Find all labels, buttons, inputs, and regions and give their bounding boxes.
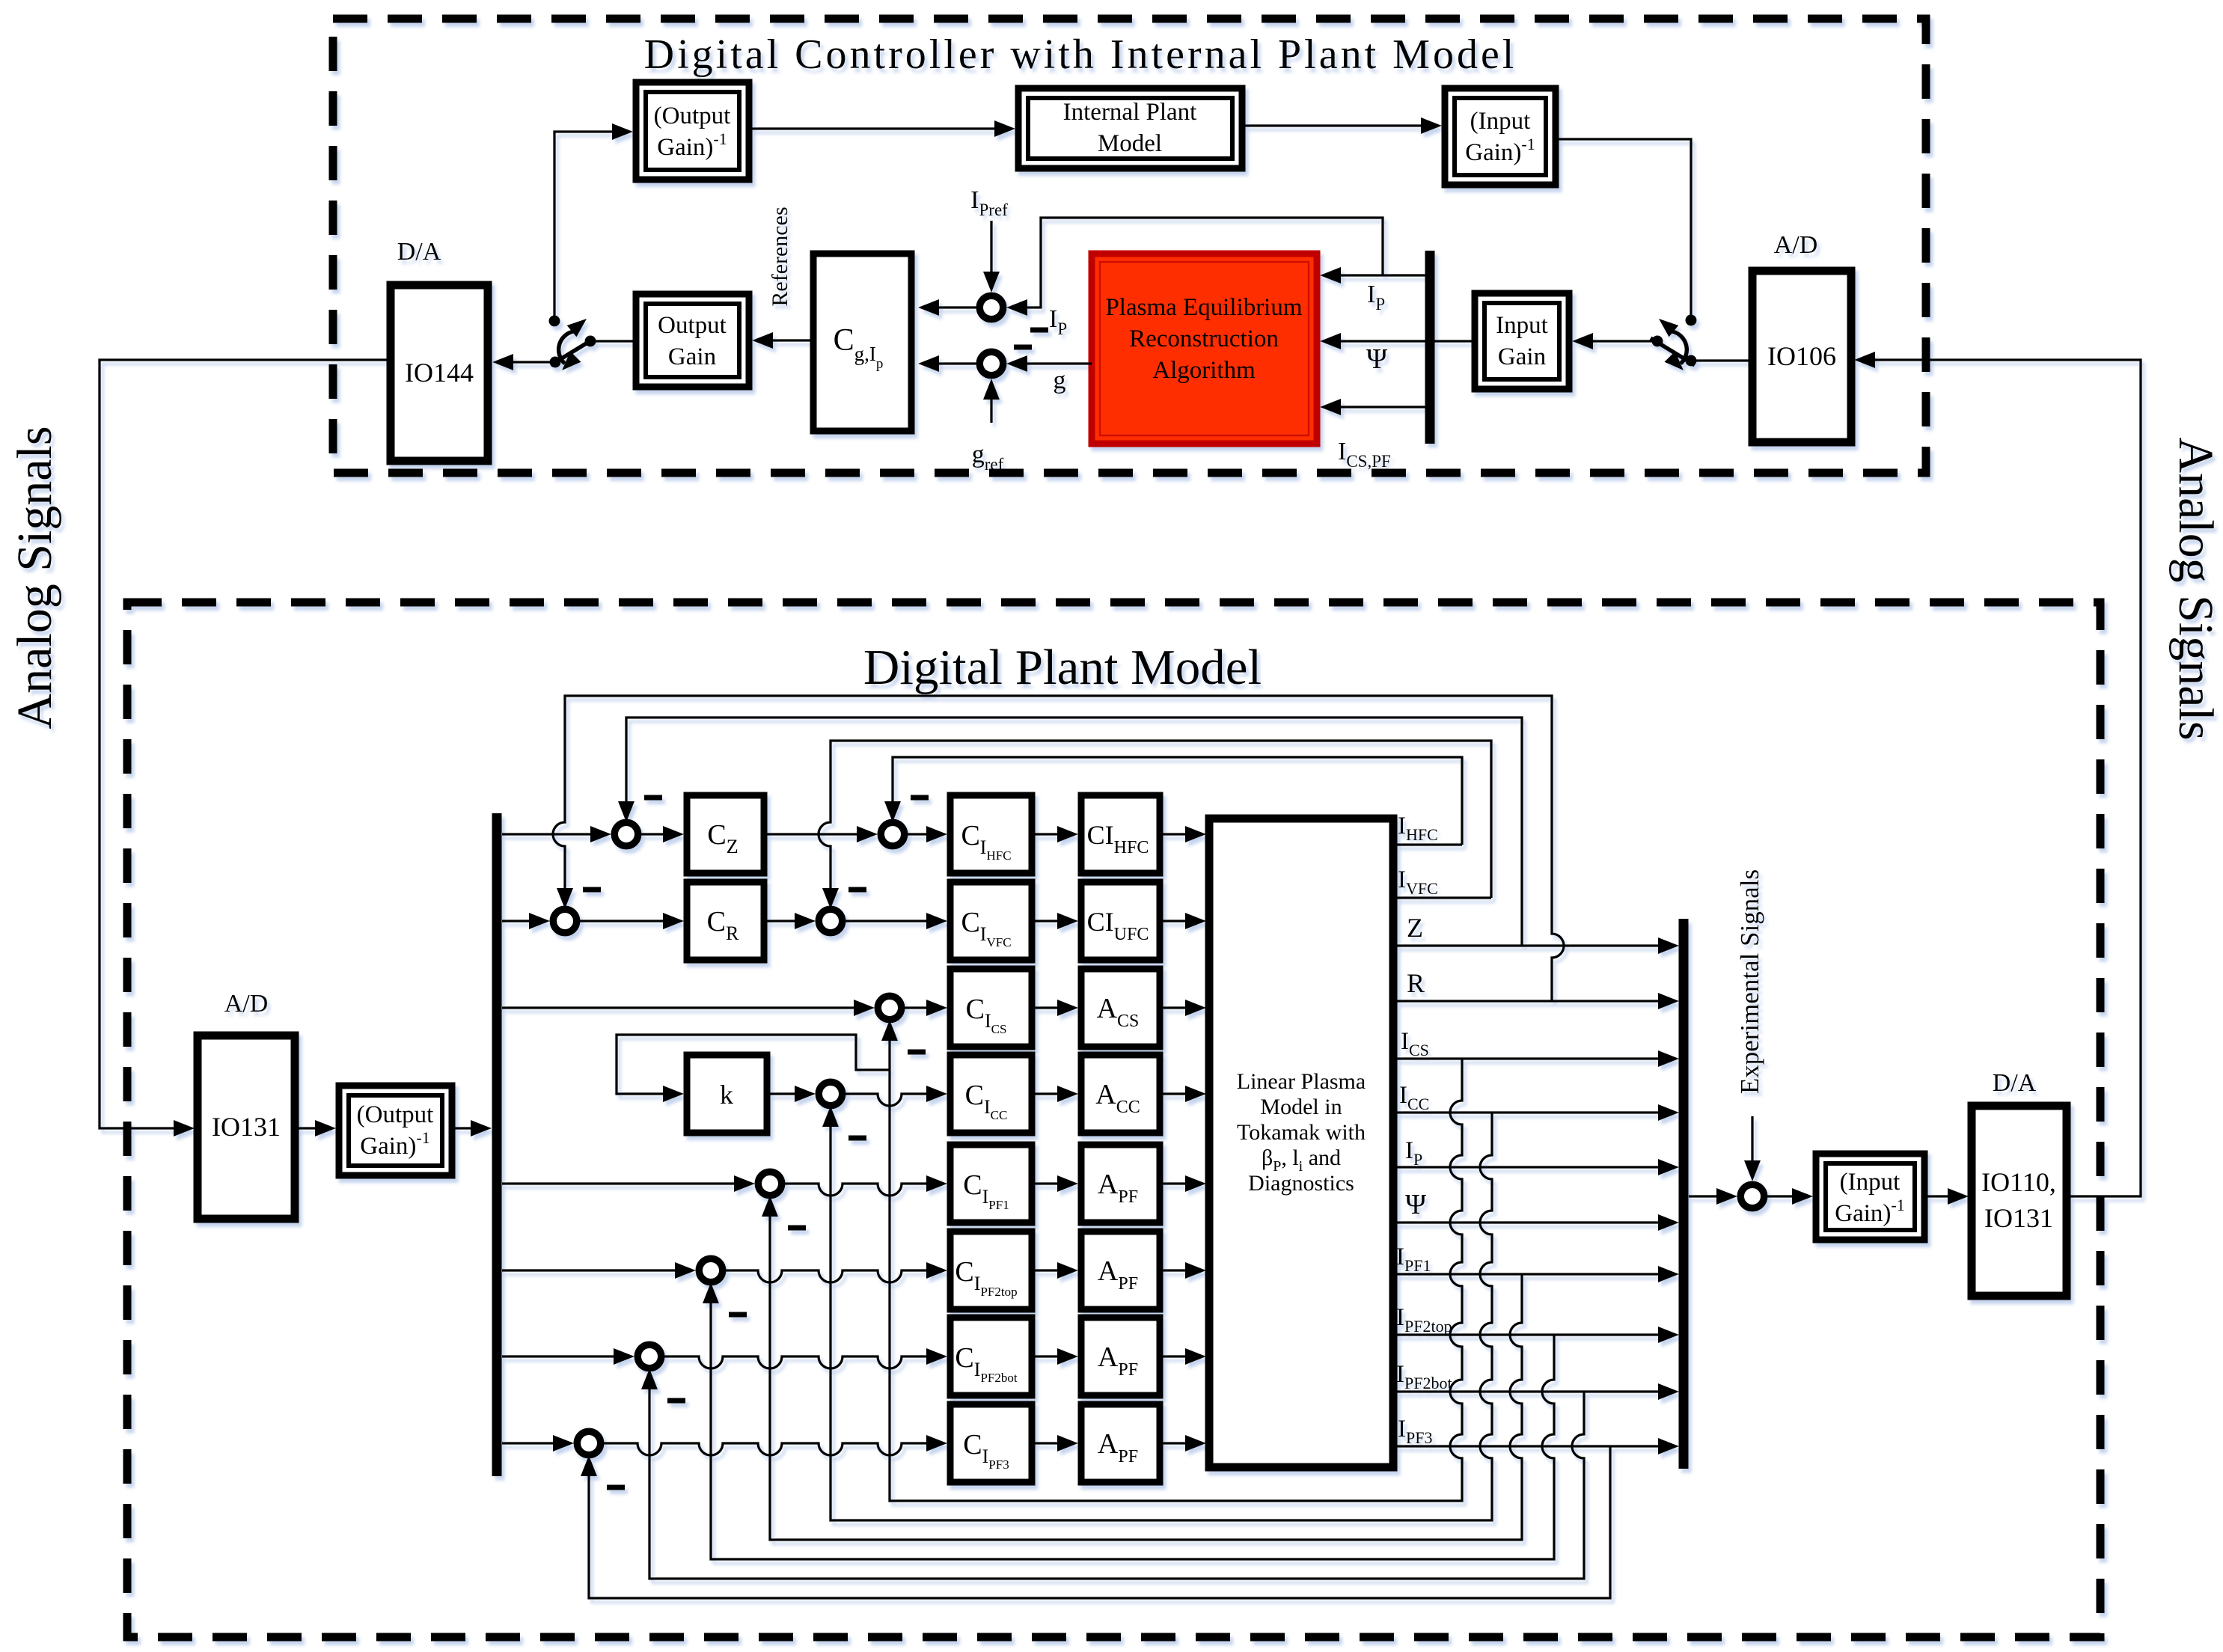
block Plasma Equilibrium Reconstruction Algorithm (red) <box>1092 254 1317 444</box>
svg-text:D/A: D/A <box>397 238 441 266</box>
svg-text:Z: Z <box>1407 913 1423 943</box>
wire A_PF2bot to plasma model <box>1160 1348 1206 1365</box>
wire Z feedback (top) <box>618 718 1522 946</box>
label C_IPF2bot <box>955 1342 1017 1385</box>
sum junction ICS <box>878 996 902 1020</box>
wire C_ICC to A_CC <box>1032 1086 1078 1102</box>
block C_IHFC <box>950 795 1032 873</box>
wire bus to sum CS <box>502 1000 875 1016</box>
label (Output Gain)^-1 (controller) <box>654 103 731 129</box>
label Output Gain <box>658 312 727 339</box>
label IVFC output <box>1398 866 1438 898</box>
minus at sum IPF2top <box>729 1312 747 1318</box>
wire sum to (Input Gain)^-1 (plant) <box>1767 1188 1813 1205</box>
label IP near bus <box>1367 281 1385 313</box>
wire C_ICS to A_CS <box>1032 1000 1078 1016</box>
label C_ICC <box>965 1080 1008 1122</box>
wire ICS feedback (bottom) <box>881 1020 1462 1501</box>
wire (Output Gain)^-1 to left bus <box>452 1120 492 1136</box>
svg-text:Ψ: Ψ <box>1405 1189 1426 1220</box>
minus at sum R <box>583 887 601 893</box>
label C_R <box>707 906 739 944</box>
sum junction Z <box>614 822 638 846</box>
minus at sum ICC <box>848 1136 866 1141</box>
wire plasma IPF2top output <box>1393 1327 1679 1343</box>
svg-text:Ψ: Ψ <box>1366 343 1387 375</box>
svg-text:(Input: (Input <box>1840 1169 1901 1196</box>
label IPref <box>970 186 1008 219</box>
dashed box: Digital Controller with Internal Plant Model <box>333 19 1926 473</box>
block (Output Gain)^-1 (plant) <box>339 1086 452 1175</box>
wire Output Gain to switch <box>590 340 636 342</box>
wire sum junction A to C_g,Ip <box>918 299 976 316</box>
label Analog Signals (right) <box>2168 437 2223 740</box>
label CI_UFC <box>1087 907 1149 944</box>
svg-text:IO106: IO106 <box>1767 341 1836 371</box>
label IP near junction <box>1049 305 1067 338</box>
label A_CC <box>1095 1079 1140 1117</box>
label k <box>720 1080 733 1110</box>
minus at sum IPF2bot <box>667 1398 685 1404</box>
label Psi output <box>1405 1189 1426 1220</box>
label Internal Plant Model line2 <box>1098 130 1162 157</box>
wire sum CC to C_ICC <box>846 1086 947 1106</box>
block C_IPF2bot <box>950 1318 1032 1395</box>
sum junction IPF2top <box>699 1258 723 1282</box>
label (Output Gain)^-1 line2 (controller) <box>657 129 727 161</box>
svg-text:Gain: Gain <box>668 343 716 370</box>
label IO106 <box>1767 341 1836 371</box>
label gref <box>972 441 1004 474</box>
label C_IVFC <box>961 907 1011 949</box>
wire IPref input <box>983 221 1000 293</box>
wire bus to red box Psi row <box>1320 333 1425 349</box>
svg-text:IO144: IO144 <box>405 358 474 388</box>
wire C_IPF3 to A_PF3 <box>1032 1435 1078 1451</box>
wire IPF2bot feedback (bottom) <box>641 1368 1584 1579</box>
wire g output to sum junction B <box>1006 355 1092 372</box>
svg-text:g: g <box>1054 367 1066 394</box>
svg-text:Plasma Equilibrium: Plasma Equilibrium <box>1105 294 1302 321</box>
sum junction IPF2bot <box>637 1344 661 1368</box>
wire sum R to C_R <box>580 913 684 929</box>
wire plasma IHFC output <box>1393 843 1462 845</box>
svg-text:IO131: IO131 <box>1984 1203 2053 1233</box>
label C_IPF1 <box>963 1169 1009 1212</box>
block A_PF (PF1) <box>1081 1145 1160 1223</box>
svg-text:Reconstruction: Reconstruction <box>1129 325 1279 352</box>
block Input Gain <box>1475 293 1569 389</box>
block C_ICC <box>950 1055 1032 1133</box>
minus at sum IPF3 <box>607 1485 625 1490</box>
block A_PF (PF2bot) <box>1081 1318 1160 1395</box>
sum junction A (IP) <box>979 296 1003 319</box>
label Internal Plant Model <box>1063 99 1197 126</box>
wire gref input <box>983 379 1000 423</box>
sum junction ICC <box>819 1082 843 1106</box>
minus at sum Z <box>644 795 662 801</box>
label C_Z <box>707 819 738 857</box>
wire sum PF3 to C_IPF3 <box>604 1435 947 1455</box>
block C_IPF3 <box>950 1404 1032 1482</box>
svg-text:(Output: (Output <box>654 103 731 129</box>
label Analog Signals (left) <box>7 426 62 729</box>
wire bus to sum R <box>502 913 550 929</box>
block A/D IO131 <box>198 1035 295 1219</box>
label CI_HFC <box>1087 820 1149 857</box>
label (Input Gain)^-1 plant line2 <box>1835 1196 1904 1227</box>
dashed box: Digital Plant Model <box>127 602 2100 1637</box>
label IO131 (output) <box>1984 1203 2053 1233</box>
svg-text:Gain: Gain <box>1498 343 1546 370</box>
bus bar (controller inputs IP Psi ICS,PF) <box>1425 251 1435 444</box>
wire IPF1 feedback (bottom) <box>762 1196 1522 1540</box>
wire bus to sum Z <box>502 826 611 842</box>
sum junction B (g) <box>979 352 1003 376</box>
minus at sum IPF1 <box>788 1226 806 1231</box>
wire switch to IO144 <box>492 354 555 370</box>
block (Input Gain)^-1 (plant) <box>1816 1154 1924 1240</box>
wire C_g,Ip to Output Gain <box>752 332 813 349</box>
wire plasma IP output <box>1393 1159 1679 1175</box>
svg-text:Output: Output <box>658 312 727 339</box>
label (Output Gain)^-1 plant line2 <box>360 1128 429 1160</box>
svg-text:Internal Plant: Internal Plant <box>1063 99 1197 126</box>
wire sum HFC to C_IHFC <box>908 826 947 842</box>
svg-text:Input: Input <box>1496 312 1548 339</box>
block C_ICS <box>950 969 1032 1047</box>
wire k to sum CC <box>767 1086 816 1102</box>
label (Input Gain)^-1 line2 (controller) <box>1465 135 1535 166</box>
svg-text:Tokamak with: Tokamak with <box>1237 1120 1366 1145</box>
wire sum CS to C_ICS <box>905 1000 947 1016</box>
minus at sum IVFC <box>848 887 866 893</box>
wire plasma ICS output <box>1393 1050 1679 1067</box>
label IPF2top output <box>1396 1304 1452 1336</box>
wire A_CC to plasma model <box>1160 1086 1206 1102</box>
wire switch to (Output Gain)^-1 <box>554 123 633 321</box>
label ICS output <box>1401 1028 1429 1059</box>
label C_IPF2top <box>955 1256 1017 1299</box>
sum junction IPF1 <box>758 1172 782 1196</box>
block (Output Gain)^-1 (controller) <box>636 82 749 180</box>
block A/D IO106 <box>1752 271 1851 442</box>
svg-text:(Input: (Input <box>1470 108 1531 135</box>
svg-text:Experimental Signals: Experimental Signals <box>1735 869 1764 1094</box>
block k <box>687 1055 767 1133</box>
wire A_PF1 to plasma model <box>1160 1175 1206 1192</box>
minus at sum ICS <box>908 1050 926 1055</box>
label Reconstruction <box>1129 325 1279 352</box>
wire ICC feedback (bottom) <box>822 1106 1492 1520</box>
wire sum PF1 to C_IPF1 <box>785 1175 947 1196</box>
label A/D (IO106) <box>1774 231 1818 259</box>
svg-text:Model: Model <box>1098 130 1162 157</box>
svg-text:Algorithm: Algorithm <box>1152 357 1256 384</box>
label Z output <box>1407 913 1423 943</box>
label D/A (IO110) <box>1993 1069 2037 1097</box>
label ICS,PF near bus <box>1338 438 1391 471</box>
minus at junction A <box>1030 328 1048 333</box>
wire bus to red box ICS,PF row <box>1320 399 1425 415</box>
sum junction IPF3 <box>577 1431 601 1455</box>
wire IO144 to IO131 (analog left) <box>100 360 391 1136</box>
label betaP li and <box>1262 1145 1341 1175</box>
wire switch to Input Gain <box>1572 333 1657 349</box>
svg-text:References: References <box>768 206 792 306</box>
title: Digital Controller with Internal Plant Model <box>644 31 1517 78</box>
wire bus to red box IP row <box>1320 267 1425 284</box>
title: Digital Plant Model <box>863 640 1262 695</box>
block Internal Plant Model <box>1018 88 1242 168</box>
wire bus to sum PF2bot <box>502 1348 635 1365</box>
wire sum VFC to C_IVFC <box>846 913 947 929</box>
label Input Gain <box>1496 312 1548 339</box>
label IPF1 output <box>1396 1243 1431 1275</box>
block A_CS <box>1081 969 1160 1047</box>
right bus bar (plant outputs) <box>1679 919 1689 1469</box>
label A_PF (PF2top) <box>1098 1255 1138 1294</box>
sum junction R <box>553 909 577 933</box>
wire IVFC feedback (top) <box>819 741 1491 909</box>
sum junction experimental signals <box>1740 1184 1764 1208</box>
sum junction IVFC <box>819 909 843 933</box>
label Experimental Signals (rotated) <box>1735 869 1764 1094</box>
wire A_CS to plasma model <box>1160 1000 1206 1016</box>
label C_g,Ip <box>834 323 884 372</box>
wire C_IPF1 to A_PF1 <box>1032 1175 1078 1192</box>
wire C_IPF2top to A_PF2top <box>1032 1262 1078 1279</box>
wire bus to sum PF2top <box>502 1262 696 1279</box>
label D/A (IO144) <box>397 238 441 266</box>
wire Input Gain to bus <box>1434 340 1475 342</box>
label IO110, <box>1981 1167 2056 1197</box>
label Model in <box>1260 1095 1342 1119</box>
label IP output <box>1405 1137 1422 1169</box>
label IO144 <box>405 358 474 388</box>
block D/A IO144 <box>391 285 488 461</box>
wire plasma IPF2bot output <box>1393 1383 1679 1400</box>
svg-text:R: R <box>1407 968 1425 998</box>
wire (Output Gain)^-1 to Internal Plant Model <box>749 120 1015 137</box>
wire CI_UFC to plasma model <box>1160 913 1206 929</box>
wire sum Z to C_Z <box>641 826 684 842</box>
svg-text:Diagnostics: Diagnostics <box>1248 1171 1354 1196</box>
block A_PF (PF2top) <box>1081 1232 1160 1309</box>
wire R feedback (top) <box>553 696 1564 1001</box>
label ICC output <box>1399 1082 1429 1113</box>
svg-text:IO110,: IO110, <box>1981 1167 2056 1197</box>
label IO131 <box>212 1112 281 1142</box>
wire bus to sum PF3 <box>502 1435 574 1451</box>
svg-text:Analog Signals: Analog Signals <box>7 426 62 729</box>
wire sum PF2bot to C_IPF2bot <box>664 1348 947 1368</box>
wire C_IVFC to CI_UFC <box>1032 913 1078 929</box>
wire plasma ICC output <box>1393 1104 1679 1121</box>
wire IP feedback to sum junction A <box>1006 218 1383 316</box>
wire plasma IPF1 output <box>1393 1266 1679 1282</box>
label g near junction <box>1054 367 1066 394</box>
label Output Gain line2 <box>668 343 716 370</box>
sum junction IHFC <box>881 822 905 846</box>
wire A_PF3 to plasma model <box>1160 1435 1206 1451</box>
block Output Gain <box>636 294 749 387</box>
wire plasma Z output <box>1393 937 1679 954</box>
block D/A IO110 IO131 <box>1972 1106 2067 1296</box>
label A_CS <box>1097 993 1140 1031</box>
label References (rotated) <box>768 206 792 306</box>
block CI_HFC <box>1081 795 1160 873</box>
label IHFC output <box>1398 813 1438 844</box>
wire plasma IPF3 output <box>1393 1438 1679 1454</box>
wire (Input Gain)^-1 to switch <box>1556 139 1691 317</box>
label R output <box>1407 968 1425 998</box>
wire (Input Gain)^-1 to IO110 <box>1924 1188 1969 1205</box>
block CI_UFC <box>1081 882 1160 960</box>
wire IHFC feedback (top) <box>884 757 1462 845</box>
label Diagnostics <box>1248 1171 1354 1196</box>
block (Input Gain)^-1 (controller) <box>1445 88 1556 185</box>
wire C_IHFC to CI_HFC <box>1032 826 1078 842</box>
wire A_PF2top to plasma model <box>1160 1262 1206 1279</box>
wire C_IPF2bot to A_PF2bot <box>1032 1348 1078 1365</box>
svg-text:Linear Plasma: Linear Plasma <box>1237 1069 1366 1094</box>
wire C_Z to sum HFC <box>764 826 878 842</box>
wire C_R to sum VFC <box>764 913 816 929</box>
wire right bus to sum experimental <box>1689 1188 1737 1205</box>
label IPF3 output <box>1398 1416 1432 1447</box>
svg-text:A/D: A/D <box>1774 231 1818 259</box>
manual switch (IO144 side) <box>549 316 596 371</box>
label Linear Plasma <box>1237 1069 1366 1094</box>
label Input Gain line2 <box>1498 343 1546 370</box>
block C_IPF1 <box>950 1145 1032 1223</box>
wire experimental signals input <box>1744 1116 1761 1181</box>
wire sum junction B to C_g,Ip <box>918 355 976 372</box>
minus at junction B <box>1014 345 1032 350</box>
block Linear Plasma Model <box>1209 819 1393 1467</box>
block C_IVFC <box>950 882 1032 960</box>
label A_PF (PF3) <box>1098 1428 1138 1466</box>
label A_PF (PF1) <box>1098 1169 1138 1207</box>
left bus bar (plant inputs) <box>492 813 502 1476</box>
wire sum PF2top to C_IPF2top <box>726 1262 947 1282</box>
label Tokamak with <box>1237 1120 1366 1145</box>
label C_IPF3 <box>963 1429 1009 1472</box>
wire IO106 input from IO110 (analog right) <box>1854 352 2141 1196</box>
label IPF2bot output <box>1396 1361 1452 1392</box>
svg-text:(Output: (Output <box>357 1101 434 1128</box>
wire bus to sum PF1 <box>502 1175 755 1192</box>
svg-text:D/A: D/A <box>1993 1069 2037 1097</box>
block C_g,Ip controller <box>813 254 911 431</box>
svg-text:A/D: A/D <box>224 990 269 1018</box>
block C_R <box>687 882 764 960</box>
label (Output Gain)^-1 plant <box>357 1101 434 1128</box>
wire switch to IO106 <box>1691 359 1749 361</box>
label Plasma Equilibrium <box>1105 294 1302 321</box>
svg-text:Model in: Model in <box>1260 1095 1342 1119</box>
svg-text:k: k <box>720 1080 733 1110</box>
label A_PF (PF2bot) <box>1098 1342 1138 1380</box>
svg-text:Digital Plant Model: Digital Plant Model <box>863 640 1262 695</box>
label A/D (IO131) <box>224 990 269 1018</box>
label Psi near bus <box>1366 343 1387 375</box>
wire IPF3 feedback (bottom) <box>581 1446 1610 1598</box>
wire IPF2top feedback (bottom) <box>703 1282 1554 1559</box>
wire k input tap <box>617 1035 890 1102</box>
block A_CC <box>1081 1055 1160 1133</box>
svg-text:IO131: IO131 <box>212 1112 281 1142</box>
wire Internal Plant Model to (Input Gain)^-1 <box>1242 117 1442 134</box>
wire IO131 to (Output Gain)^-1 <box>295 1120 336 1136</box>
minus at sum IHFC <box>911 795 929 801</box>
block C_IPF2top <box>950 1232 1032 1309</box>
wire CI_HFC to plasma model <box>1160 826 1206 842</box>
svg-text:Analog Signals: Analog Signals <box>2168 437 2223 740</box>
label Algorithm <box>1152 357 1256 384</box>
wire plasma IVFC output <box>1393 896 1491 899</box>
wire plasma Psi output <box>1393 1214 1679 1231</box>
manual switch (IO106 side) <box>1651 315 1697 371</box>
label C_ICS <box>966 994 1007 1036</box>
svg-text:Digital Controller with Intern: Digital Controller with Internal Plant M… <box>644 31 1517 78</box>
label (Input Gain)^-1 plant <box>1840 1169 1901 1196</box>
label C_IHFC <box>961 820 1011 863</box>
wire plasma R output <box>1393 993 1679 1009</box>
label (Input Gain)^-1 (controller) <box>1470 108 1531 135</box>
block A_PF (PF3) <box>1081 1404 1160 1482</box>
block C_Z <box>687 795 764 873</box>
